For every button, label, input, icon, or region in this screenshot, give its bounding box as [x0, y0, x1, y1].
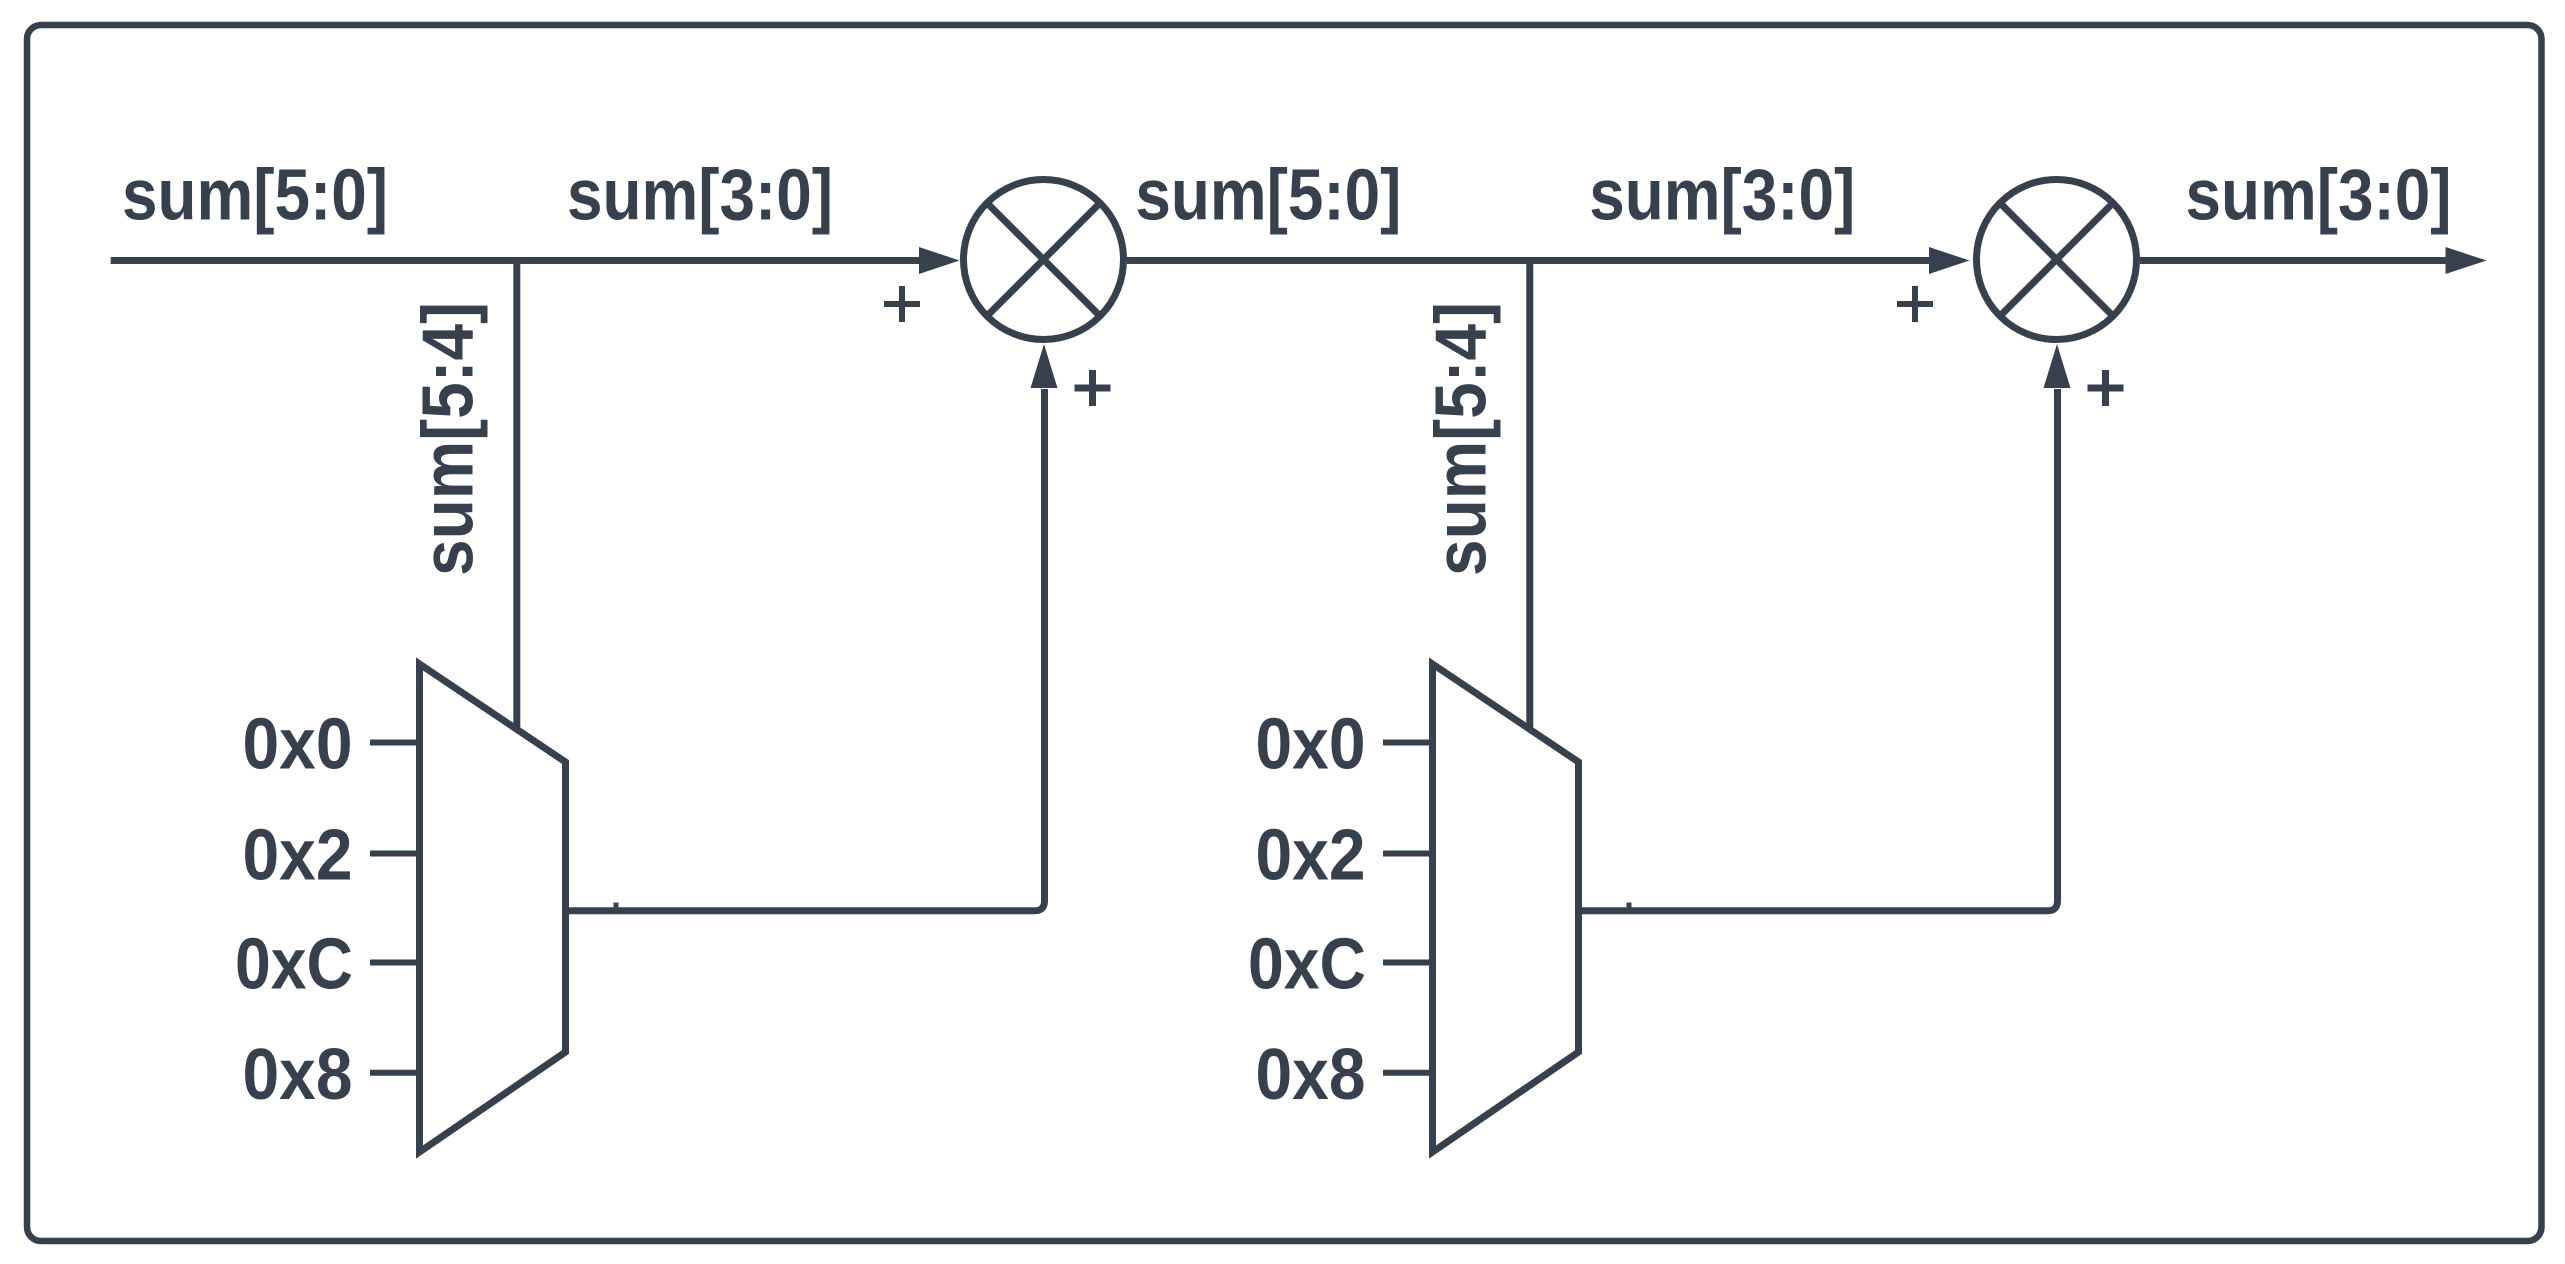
wire sum[5:0] input to adder U1 — [111, 257, 919, 264]
arrowhead at diagram output — [2446, 247, 2487, 274]
mux M1 — [420, 664, 566, 1152]
pin stub 0x0 of M2 — [1383, 740, 1430, 746]
svg-text:sum[5:0]: sum[5:0] — [1135, 156, 1401, 236]
svg-text:0xC: 0xC — [235, 925, 353, 1005]
pin stub 0xC of M2 — [1383, 960, 1430, 966]
svg-text:0x0: 0x0 — [1256, 705, 1366, 785]
adder U1 (circle with X) — [964, 180, 1124, 340]
wire branch sum[5:4] down to mux M2 — [1526, 258, 1533, 730]
wire branch sum[5:4] down to mux M1 — [513, 258, 520, 730]
wire U1 output to adder U2 — [1127, 257, 1929, 264]
wire M2 output to U2 south port — [1579, 389, 2058, 911]
svg-text:sum[5:0]: sum[5:0] — [122, 156, 388, 236]
svg-text:0xC: 0xC — [1248, 925, 1366, 1005]
waypoint dot on M2 output wire — [1627, 903, 1632, 908]
plus sign at U2 west input — [1897, 286, 1933, 322]
arrowhead into U2 west port — [1929, 247, 1970, 274]
svg-text:sum[3:0]: sum[3:0] — [1589, 156, 1855, 236]
wire U2 output sum[3:0] — [2140, 257, 2446, 264]
arrowhead into U1 south port — [1031, 344, 1058, 388]
svg-text:sum[5:4]: sum[5:4] — [1422, 302, 1502, 576]
svg-text:sum[3:0]: sum[3:0] — [2186, 156, 2452, 236]
svg-text:0x8: 0x8 — [243, 1035, 353, 1115]
arrowhead into U1 west port — [919, 247, 960, 274]
mux M2 — [1433, 664, 1579, 1152]
pin stub 0x8 of M2 — [1383, 1070, 1430, 1076]
plus sign at U1 west input — [884, 286, 920, 322]
arrowhead into U2 south port — [2044, 344, 2071, 388]
pin stub 0x0 of M1 — [370, 740, 417, 746]
svg-text:0x2: 0x2 — [243, 816, 353, 896]
plus sign at U1 south input — [1075, 370, 1111, 406]
waypoint dot on M1 output wire — [614, 903, 619, 908]
plus sign at U2 south input — [2088, 370, 2124, 406]
svg-text:sum[5:4]: sum[5:4] — [409, 302, 489, 576]
pin stub 0x2 of M2 — [1383, 851, 1430, 857]
svg-text:0x2: 0x2 — [1256, 816, 1366, 896]
svg-text:0x0: 0x0 — [243, 705, 353, 785]
svg-text:sum[3:0]: sum[3:0] — [567, 156, 833, 236]
pin stub 0x8 of M1 — [370, 1070, 417, 1076]
svg-text:0x8: 0x8 — [1256, 1035, 1366, 1115]
wire M1 output to U1 south port — [566, 389, 1045, 911]
adder U2 (circle with X) — [1977, 180, 2137, 340]
pin stub 0x2 of M1 — [370, 851, 417, 857]
pin stub 0xC of M1 — [370, 960, 417, 966]
